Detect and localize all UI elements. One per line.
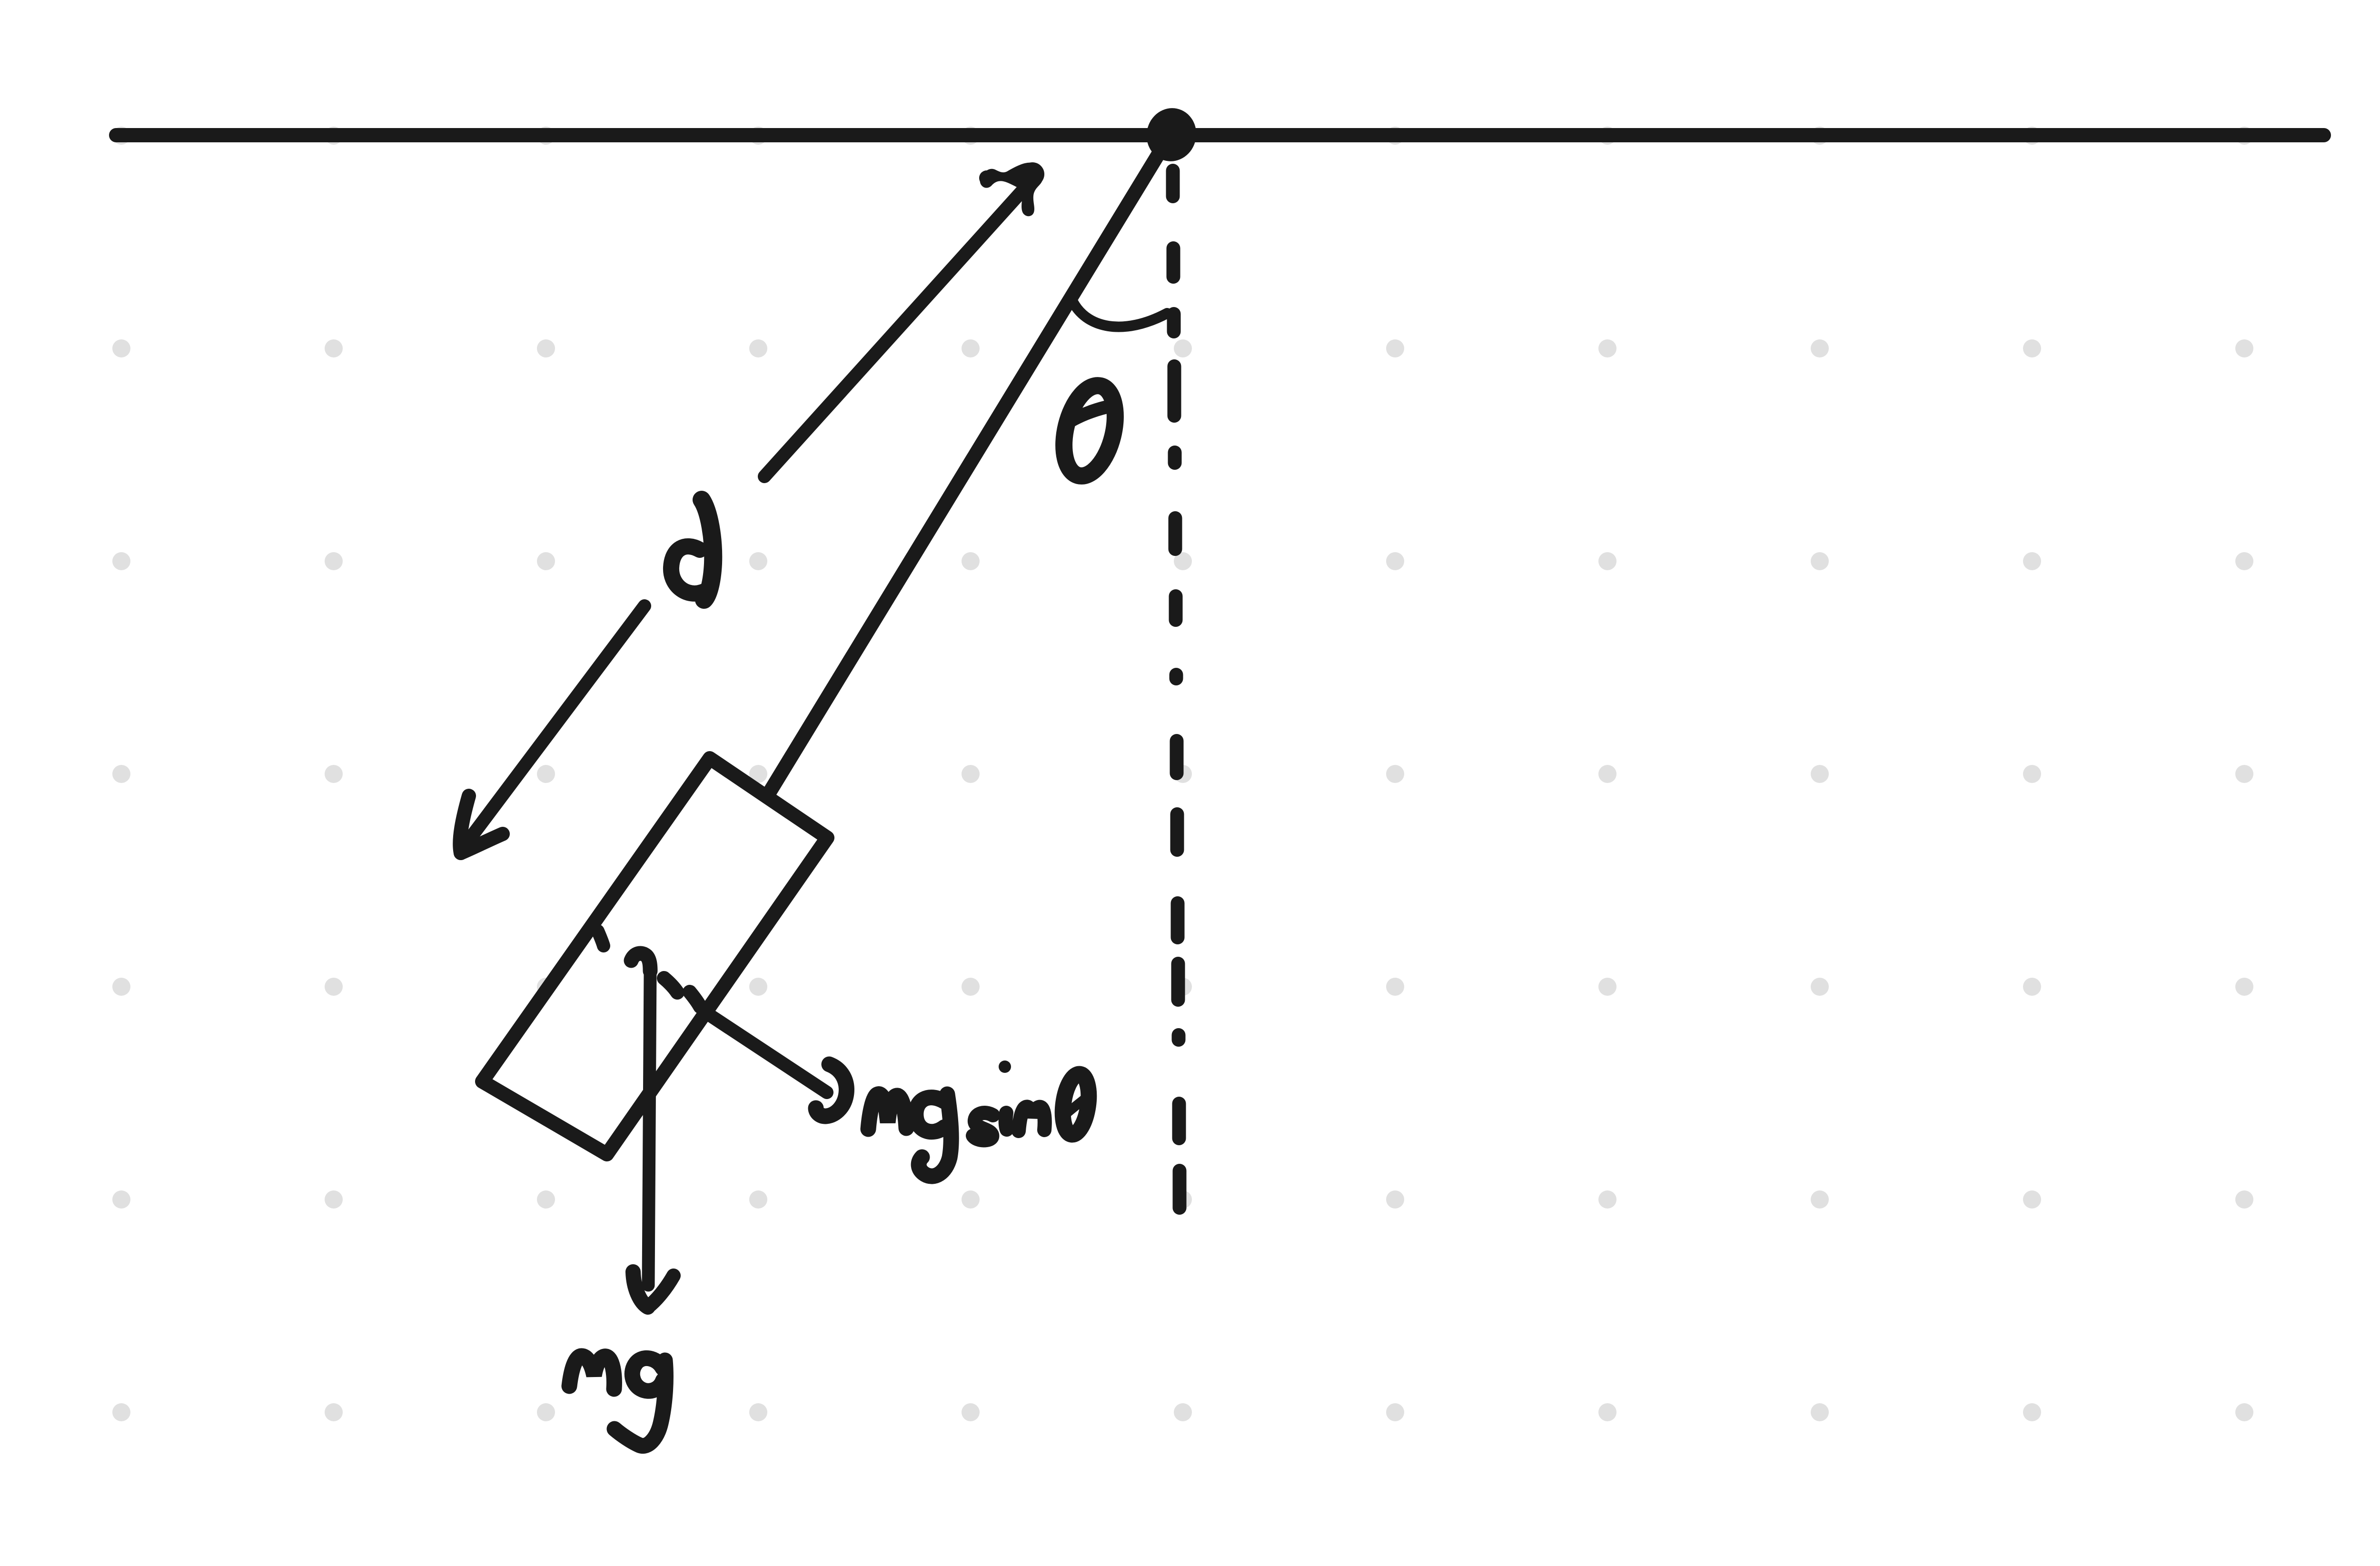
block (pendulum bob) [482,758,827,1154]
label theta (angle) [1055,380,1124,481]
label mg [569,1356,665,1446]
weight arrow mg (vertical) [631,953,674,1307]
pivot [1141,103,1201,166]
dashed vertical reference line [1173,171,1180,1208]
rod [767,144,1165,796]
distance arrow d (double-headed, parallel offset from rod) [460,188,1024,853]
angle arc [1071,299,1167,327]
component arrow mg sin theta (perpendicular to rod) [598,931,846,1116]
label d [671,500,713,600]
label mg sin theta [868,1094,951,1177]
grid dots [112,127,2253,1421]
ceiling line [116,128,2324,142]
